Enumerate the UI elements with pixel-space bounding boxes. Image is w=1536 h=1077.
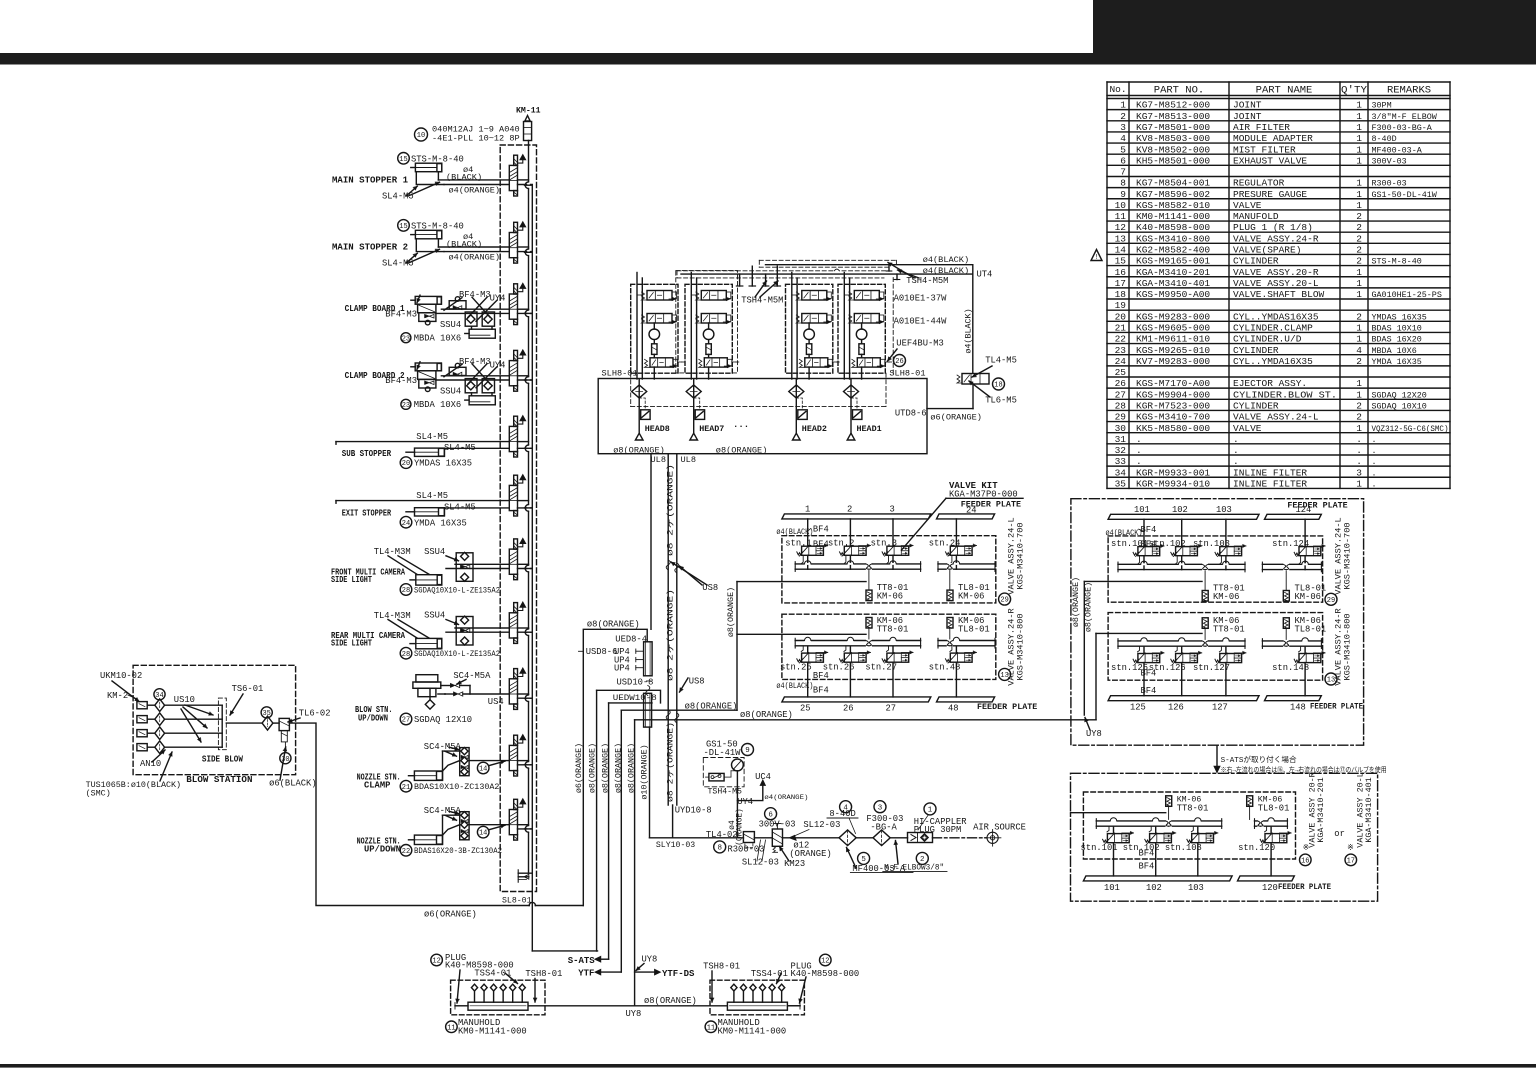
svg-text:BF4: BF4	[1141, 668, 1157, 678]
svg-text:ø4(ORANGE): ø4(ORANGE)	[449, 252, 501, 262]
manifold rails	[795, 563, 920, 565]
svg-text:SGDAQ10X10-L-ZE135A2: SGDAQ10X10-L-ZE135A2	[414, 649, 500, 659]
svg-text:17: 17	[1115, 278, 1126, 289]
svg-text:SL4-M5: SL4-M5	[382, 191, 414, 201]
svg-text:14: 14	[1115, 245, 1127, 256]
svg-text:KGA-M3410-201: KGA-M3410-201	[1136, 267, 1210, 278]
svg-text:SSU4: SSU4	[424, 611, 445, 621]
svg-text:1: 1	[1356, 200, 1362, 211]
table row 10	[1107, 209, 1450, 211]
svg-text:CYLINDER.U/D: CYLINDER.U/D	[1233, 334, 1302, 345]
S-ATS dash-dot enclosure	[1071, 773, 1378, 901]
svg-text:GA010HE1-25-PS: GA010HE1-25-PS	[1372, 290, 1442, 300]
rail jog at return line	[527, 629, 530, 636]
cylinder BLOW STN UP/DOWN (SGDAQ 12X10)	[416, 675, 438, 682]
cylinder body	[416, 638, 442, 648]
station valve stn.48	[950, 653, 972, 662]
svg-text:2: 2	[1356, 256, 1362, 267]
svg-text:YTF: YTF	[578, 969, 594, 979]
table row 23	[1107, 354, 1450, 356]
svg-text:KGA-M3410-201: KGA-M3410-201	[1316, 777, 1326, 842]
air filter diamond F300-03	[873, 830, 890, 846]
svg-text:KGS-M8582-010: KGS-M8582-010	[1136, 200, 1210, 211]
svg-text:FEEDER PLATE: FEEDER PLATE	[1278, 882, 1331, 892]
svg-text:Q'TY: Q'TY	[1341, 85, 1368, 97]
labels manuhold left	[431, 954, 443, 966]
svg-text:R300-03: R300-03	[1372, 179, 1407, 189]
svg-text:ø4(ORANGE): ø4(ORANGE)	[764, 794, 808, 802]
svg-text:1: 1	[1356, 478, 1362, 489]
svg-text:1: 1	[1120, 100, 1126, 111]
head valve UEF4BU-M3	[650, 358, 673, 367]
table row 20	[1107, 320, 1450, 322]
svg-text:KGS-M9904-000: KGS-M9904-000	[1136, 389, 1210, 400]
head7 outer dashed box	[676, 271, 738, 373]
svg-text:KM-2: KM-2	[107, 691, 128, 701]
svg-text:YMDA 16X35: YMDA 16X35	[1372, 357, 1422, 367]
svg-text:UYD10-8: UYD10-8	[675, 805, 712, 815]
svg-text:2: 2	[1356, 233, 1362, 244]
svg-text:BLOW STATION: BLOW STATION	[186, 774, 252, 785]
fittings SC4-M5A	[450, 683, 455, 687]
pointer lines	[388, 620, 417, 639]
svg-text:CYLINDER: CYLINDER	[1233, 400, 1279, 411]
labels manuhold right	[820, 954, 832, 966]
svg-text:stn.103: stn.103	[1193, 539, 1230, 549]
svg-text:UL8: UL8	[651, 455, 666, 465]
svg-text:A010E1-37W: A010E1-37W	[894, 293, 948, 303]
parts table frame	[1107, 81, 1450, 83]
svg-text:.: .	[1372, 446, 1377, 456]
svg-text:SSU4: SSU4	[424, 547, 445, 557]
svg-text:···: ···	[733, 422, 749, 432]
svg-text:SLH8-01: SLH8-01	[602, 369, 638, 379]
svg-text:HEAD7: HEAD7	[699, 424, 724, 434]
svg-text:TT8-01: TT8-01	[877, 625, 909, 635]
svg-text:102: 102	[1172, 505, 1188, 515]
svg-text:KM-11: KM-11	[516, 107, 541, 116]
svg-text:.: .	[1136, 434, 1142, 445]
speed controllers SSU4 pair	[465, 312, 477, 326]
table row 26	[1107, 387, 1450, 389]
cylinder body	[416, 575, 442, 585]
svg-text:6: 6	[1120, 155, 1126, 166]
svg-text:1: 1	[1356, 423, 1362, 434]
check/throttle block SSU4	[456, 617, 473, 646]
svg-text:KM0-M1141-000: KM0-M1141-000	[458, 1027, 527, 1037]
manifold rails	[938, 563, 995, 565]
manifold solenoid valve	[514, 603, 518, 613]
svg-text:148: 148	[1290, 702, 1306, 712]
cross line to right feeder block	[635, 719, 1096, 721]
top title bar	[0, 53, 1536, 65]
ejector column HEAD8	[638, 379, 640, 433]
svg-text:4: 4	[1356, 345, 1362, 356]
svg-text:stn.3: stn.3	[871, 538, 897, 548]
exit TL8-01	[949, 571, 951, 591]
svg-text:.: .	[1233, 456, 1239, 467]
svg-text:31: 31	[1115, 434, 1127, 445]
svg-text:KGA-M3410-401: KGA-M3410-401	[1364, 777, 1374, 842]
valve 18 output to UTD8-6	[972, 384, 974, 409]
manuhold bus line UY8	[529, 1005, 728, 1007]
svg-text:EJECTOR ASSY.: EJECTOR ASSY.	[1233, 378, 1307, 389]
pressure switch	[709, 773, 724, 781]
table row 9	[1107, 198, 1450, 200]
svg-text:VALVE: VALVE	[1233, 423, 1262, 434]
svg-text:ø8(ORANGE): ø8(ORANGE)	[1083, 582, 1093, 632]
svg-text:stn.24: stn.24	[929, 538, 961, 548]
blow output line #6	[289, 723, 529, 905]
svg-text:BF4: BF4	[813, 539, 829, 549]
svg-text:stn.101: stn.101	[1081, 843, 1118, 853]
fitting BF4-M3 with ball	[449, 367, 466, 375]
svg-text:UEF4BU-M3: UEF4BU-M3	[896, 338, 944, 348]
svg-text:TL6-02: TL6-02	[299, 709, 331, 719]
cylinder NOZZLE STN UP/DOWN (BDAS)	[460, 812, 469, 840]
svg-text:CYLINDER.BLOW ST.: CYLINDER.BLOW ST.	[1233, 389, 1337, 400]
manifold solenoid valve	[514, 222, 518, 232]
valve assy 24-R dashed box (right)	[1108, 613, 1323, 681]
svg-text:.: .	[1372, 457, 1377, 467]
table row 35	[1107, 487, 1450, 489]
svg-text:2: 2	[1356, 211, 1362, 222]
speed controllers SSU4 pair	[465, 379, 477, 393]
svg-text:stn.103: stn.103	[1165, 843, 1202, 853]
UL8 trunk line to connector	[650, 454, 652, 630]
tube lines	[443, 761, 460, 771]
manifold solenoid valve	[514, 475, 518, 485]
svg-text:or: or	[1334, 829, 1345, 839]
upper tube bus #4(BLACK) dashed run	[759, 259, 896, 261]
inline filter	[806, 344, 811, 355]
svg-text:ø8(ORANGE): ø8(ORANGE)	[726, 587, 736, 637]
svg-text:ø8 2ヶ(ORANGE): ø8 2ヶ(ORANGE)	[666, 589, 676, 681]
svg-text:1: 1	[928, 807, 933, 815]
svg-text:5: 5	[861, 856, 866, 864]
label STS-M-8-40 with ref 15	[398, 153, 410, 165]
svg-text:KG7-M8504-001: KG7-M8504-001	[1136, 178, 1210, 189]
svg-text:BF4: BF4	[1139, 848, 1155, 858]
svg-text:KG2-M8582-400: KG2-M8582-400	[1136, 245, 1210, 256]
valve 18 shaft blow (TL4-M5/TL6-M5)	[962, 374, 989, 385]
svg-text:TSH8-01: TSH8-01	[703, 961, 740, 971]
table row 30	[1107, 432, 1450, 434]
table row 18	[1107, 298, 1450, 300]
svg-text:UY4: UY4	[490, 294, 506, 304]
pointer lines	[388, 556, 417, 575]
svg-text:12: 12	[1115, 222, 1127, 233]
svg-text:1: 1	[1356, 178, 1362, 189]
silencer HEAD2	[796, 398, 802, 410]
pointer diagonals	[444, 298, 462, 311]
manifold solenoid valve	[514, 416, 518, 426]
svg-text:20: 20	[402, 460, 410, 468]
rail jog at return line	[527, 249, 530, 256]
svg-text:6: 6	[768, 811, 773, 819]
table row 31	[1107, 443, 1450, 445]
svg-text:KH5-M8501-000: KH5-M8501-000	[1136, 155, 1210, 166]
svg-text:CYLINDER.CLAMP: CYLINDER.CLAMP	[1233, 323, 1313, 334]
station valve stn.120	[1265, 834, 1287, 843]
head valve A010E1-37W	[701, 291, 726, 301]
svg-text:11: 11	[1115, 211, 1127, 222]
inline filter	[706, 344, 711, 355]
svg-text:-DL-41W: -DL-41W	[704, 748, 742, 758]
svg-text:MBDA 10X6: MBDA 10X6	[414, 333, 462, 343]
svg-text:ø8(ORANGE): ø8(ORANGE)	[588, 743, 598, 793]
svg-text:SLY10-03: SLY10-03	[656, 841, 695, 850]
svg-text:35: 35	[262, 710, 270, 718]
station valve stn.27	[887, 653, 909, 662]
svg-text:ø8(ORANGE): ø8(ORANGE)	[716, 445, 768, 455]
svg-text:INLINE FILTER: INLINE FILTER	[1233, 467, 1307, 478]
svg-text:BF4: BF4	[1141, 686, 1157, 696]
manifold solenoid valve	[514, 155, 518, 165]
svg-text:KGR-M9934-010: KGR-M9934-010	[1136, 478, 1210, 489]
svg-text:26: 26	[1115, 378, 1127, 389]
svg-text:1: 1	[1356, 278, 1362, 289]
svg-text:29: 29	[1327, 597, 1335, 605]
svg-text:34: 34	[1115, 467, 1127, 478]
svg-text:9: 9	[745, 747, 750, 755]
svg-text:3: 3	[890, 505, 895, 515]
svg-text:A010E1-44W: A010E1-44W	[894, 317, 948, 327]
svg-text:11: 11	[707, 1024, 715, 1032]
svg-text:17: 17	[1347, 858, 1355, 866]
exit TT8-01 (right)	[1084, 580, 1202, 582]
feeder plate bottom bar	[782, 697, 931, 702]
drop to manifold box	[653, 367, 655, 379]
svg-text:2: 2	[1356, 222, 1362, 233]
top-right title block	[1093, 0, 1536, 65]
svg-text:KG7-M8513-000: KG7-M8513-000	[1136, 111, 1210, 122]
svg-text:300V-03: 300V-03	[759, 819, 796, 829]
head valve A010E1-44W	[701, 314, 726, 324]
svg-text:2: 2	[1356, 356, 1362, 367]
svg-text:ø8(ORANGE): ø8(ORANGE)	[587, 620, 640, 630]
inlet KM-06 (sats)	[1166, 796, 1172, 807]
svg-text:ø8(ORANGE): ø8(ORANGE)	[685, 701, 738, 711]
valve TL6-02	[279, 718, 289, 730]
pointer diagonals	[444, 364, 462, 377]
svg-text:GS1-50-DL-41W: GS1-50-DL-41W	[1372, 190, 1438, 200]
svg-text:REMARKS: REMARKS	[1387, 85, 1431, 97]
manuhold right dashed enclosure	[710, 980, 804, 1015]
svg-text:2: 2	[1356, 311, 1362, 322]
svg-text:MAIN STOPPER 2: MAIN STOPPER 2	[332, 243, 408, 253]
svg-text:TL4-M3M: TL4-M3M	[374, 611, 411, 621]
svg-text:SL8-01: SL8-01	[502, 897, 532, 906]
head supply drop lines	[636, 273, 638, 380]
svg-text:ø4(BLACK): ø4(BLACK)	[776, 681, 813, 691]
svg-text:CLAMP BOARD 2: CLAMP BOARD 2	[345, 371, 405, 381]
blow port row 2	[137, 716, 147, 723]
main orange pipe 8-2pc	[667, 454, 669, 805]
svg-text:JOINT: JOINT	[1233, 100, 1262, 111]
svg-text:TT8-01: TT8-01	[1177, 804, 1209, 814]
manifold rails	[1118, 640, 1245, 642]
station valve stn.148	[1299, 654, 1321, 663]
table row 6	[1107, 164, 1450, 166]
table row 5	[1107, 153, 1450, 155]
svg-text:US10: US10	[174, 695, 195, 705]
svg-text:TT8-01: TT8-01	[1213, 625, 1245, 635]
cylinder MAIN STOPPER 1	[415, 163, 441, 172]
cylinder CLAMP BOARD 2 (MBDA)	[415, 363, 441, 371]
air source symbol	[987, 832, 998, 843]
svg-text:KV7-M9283-000: KV7-M9283-000	[1136, 356, 1210, 367]
table row 15	[1107, 265, 1450, 267]
table row 25	[1107, 376, 1450, 378]
svg-text:S-ATS: S-ATS	[568, 956, 596, 966]
svg-text:UL8: UL8	[681, 455, 696, 465]
table row 12	[1107, 231, 1450, 233]
drop to manifold box	[861, 367, 863, 379]
svg-text:16: 16	[1301, 858, 1309, 866]
svg-text:KM-06: KM-06	[1213, 592, 1239, 602]
svg-text:UTD8-6: UTD8-6	[895, 408, 927, 418]
ejector venturi circle	[649, 329, 660, 340]
manifold solenoid valve	[514, 284, 518, 294]
svg-text:KGR-M9933-001: KGR-M9933-001	[1136, 467, 1210, 478]
station valve stn.127	[1220, 654, 1242, 663]
circled 34	[154, 689, 165, 700]
svg-text:KGS-M3410-800: KGS-M3410-800	[1136, 233, 1210, 244]
svg-text:15: 15	[399, 223, 407, 231]
svg-text:48: 48	[948, 703, 959, 713]
silencer HEAD1	[851, 398, 857, 410]
left orange feed riser	[736, 582, 738, 711]
rail jog at return line	[527, 377, 530, 384]
svg-text:MANUFOLD: MANUFOLD	[1233, 211, 1279, 222]
svg-text:ø8(ORANGE): ø8(ORANGE)	[1071, 577, 1081, 627]
ejector column HEAD2	[795, 379, 797, 433]
rail jog at return line	[527, 826, 530, 833]
svg-text:SGDAQ 12X10: SGDAQ 12X10	[414, 715, 472, 725]
svg-text:SSU4: SSU4	[440, 320, 461, 330]
blow port row 3	[137, 730, 147, 737]
rail jog at return line	[527, 310, 530, 317]
svg-text:7: 7	[1120, 167, 1126, 178]
throttle on clamp cylinder	[425, 314, 430, 318]
svg-text:25: 25	[800, 703, 811, 713]
svg-text:US8: US8	[702, 583, 718, 593]
bus jog squiggle	[834, 270, 839, 272]
table row 24	[1107, 365, 1450, 367]
table row 2	[1107, 120, 1450, 122]
svg-text:30PM: 30PM	[1372, 101, 1392, 111]
svg-text:KK5-M8580-000: KK5-M8580-000	[1136, 423, 1210, 434]
svg-text:CYLINDER: CYLINDER	[1233, 256, 1279, 267]
svg-text:VALVE ASSY.24-L: VALVE ASSY.24-L	[1233, 412, 1319, 423]
table row 33	[1107, 465, 1450, 467]
svg-text:CYLINDER: CYLINDER	[1233, 345, 1279, 356]
svg-text:BF4-M3: BF4-M3	[459, 290, 491, 300]
svg-text:stn.2: stn.2	[828, 538, 854, 548]
SL4-M5 pointer arrows	[406, 186, 417, 196]
svg-text:stn.102: stn.102	[1149, 539, 1186, 549]
table row 19	[1107, 309, 1450, 311]
station valves 24-R	[807, 647, 809, 653]
svg-text:28: 28	[402, 587, 410, 595]
wire to valve (black)	[438, 246, 509, 248]
head supply drop lines	[690, 273, 692, 380]
station valve stn.3	[887, 546, 909, 555]
svg-text:UP4: UP4	[614, 664, 630, 674]
manifold rails	[1255, 820, 1288, 822]
svg-text:1: 1	[1356, 289, 1362, 300]
svg-text:VQZ312-5G-C6(SMC): VQZ312-5G-C6(SMC)	[1372, 424, 1449, 434]
svg-text:SL12-03: SL12-03	[742, 858, 779, 868]
wire to valve (black)	[438, 179, 509, 181]
svg-text:2: 2	[1356, 412, 1362, 423]
station valve stn.101	[1138, 547, 1160, 556]
station valves 20	[1113, 827, 1115, 833]
svg-text:MBDA 10X6: MBDA 10X6	[1372, 346, 1417, 356]
svg-text:TL4-M3M: TL4-M3M	[374, 547, 411, 557]
svg-text:1: 1	[1356, 334, 1362, 345]
svg-text:21: 21	[1115, 323, 1127, 334]
table row 7	[1107, 175, 1450, 177]
svg-text:ø6(ORANGE): ø6(ORANGE)	[930, 413, 982, 423]
feeder plate top bar (right)	[1108, 514, 1259, 519]
bundle riser UY8 main	[634, 720, 636, 1006]
table row 11	[1107, 220, 1450, 222]
svg-text:2: 2	[1356, 400, 1362, 411]
svg-text:UY8: UY8	[626, 1009, 642, 1019]
head1 outer dashed riser	[892, 278, 894, 374]
regulator TL4-02 (R300-03)	[743, 832, 754, 843]
svg-text:4: 4	[1120, 133, 1126, 144]
svg-text:UED8-4: UED8-4	[615, 634, 647, 644]
manuhold right body KM0-M1141-000	[727, 1002, 787, 1010]
svg-text:(ORANGE): (ORANGE)	[789, 849, 831, 859]
head valve A010E1-44W	[854, 314, 879, 324]
head supply drop lines	[843, 273, 845, 380]
svg-text:MIST FILTER: MIST FILTER	[1233, 144, 1296, 155]
svg-text:CLAMP BOARD 1: CLAMP BOARD 1	[345, 304, 405, 314]
svg-text:MAIN STOPPER 1: MAIN STOPPER 1	[332, 176, 408, 186]
right TSH4-M5M ports	[888, 265, 890, 271]
svg-text:KGS-M7170-A00: KGS-M7170-A00	[1136, 378, 1210, 389]
manifold return rail	[531, 185, 533, 951]
fitting BF4-M3 with ball	[449, 301, 466, 309]
manuhold right plug K40-M8598-000	[787, 1005, 800, 1007]
svg-text:ø4(ORANGE): ø4(ORANGE)	[449, 185, 501, 195]
svg-text:stn.148: stn.148	[1272, 663, 1309, 673]
svg-text:HEAD2: HEAD2	[802, 424, 827, 434]
manifold rails	[1262, 640, 1321, 642]
svg-text:KGS-M9950-A00: KGS-M9950-A00	[1136, 289, 1210, 300]
svg-text:CYL..YMDA16X35: CYL..YMDA16X35	[1233, 356, 1313, 367]
head valve UEF4BU-M3	[805, 358, 828, 367]
manifold rails	[1096, 820, 1221, 822]
svg-text:BDAS10X10-ZC130A2: BDAS10X10-ZC130A2	[414, 782, 499, 792]
svg-text:KGS-M9265-010: KGS-M9265-010	[1136, 345, 1210, 356]
svg-text:SGDAQ 12X20: SGDAQ 12X20	[1372, 390, 1427, 400]
svg-text:UP/DOWN: UP/DOWN	[358, 714, 388, 724]
TSH4-M5M stub ports	[739, 274, 741, 286]
svg-text:SLH8-01: SLH8-01	[889, 369, 925, 379]
svg-text:KGS-M3410-700: KGS-M3410-700	[1342, 522, 1352, 589]
manifold outlet port SL8-01	[517, 870, 519, 882]
svg-text:STS-M-8-40: STS-M-8-40	[1372, 257, 1422, 267]
svg-text:BF4: BF4	[813, 525, 829, 535]
svg-text:ø8(ORANGE): ø8(ORANGE)	[601, 743, 611, 793]
svg-text:24: 24	[1115, 356, 1127, 367]
svg-text:UKM10-02: UKM10-02	[100, 671, 142, 681]
